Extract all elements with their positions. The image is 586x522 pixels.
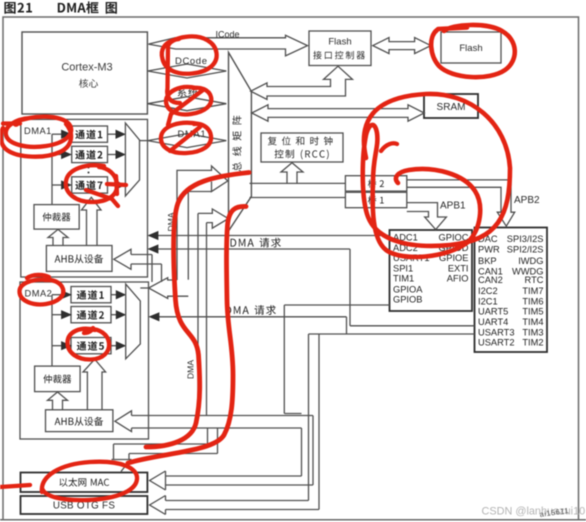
svg-text:DMA2: DMA2 [25,289,53,299]
svg-text:CSDN @lanhuazui10: CSDN @lanhuazui10 [482,506,586,518]
svg-text:Cortex-M3: Cortex-M3 [61,61,112,73]
svg-text:TIM1: TIM1 [393,274,414,284]
svg-text:ICode: ICode [216,30,240,40]
svg-text:PWR: PWR [478,245,500,255]
svg-text:DMA: DMA [186,360,196,379]
svg-text:TIM7: TIM7 [522,286,543,296]
svg-text:Flash: Flash [459,43,482,54]
svg-text:I2C1: I2C1 [478,296,498,306]
svg-text:RTC: RTC [525,275,544,285]
svg-text:TIM5: TIM5 [522,307,543,317]
svg-text:USART3: USART3 [478,327,515,337]
svg-text:CAN2: CAN2 [478,275,503,285]
svg-text:GPIOA: GPIOA [393,284,423,294]
svg-text:APB2: APB2 [514,195,540,206]
svg-text:BKP: BKP [478,256,497,266]
svg-text:USART2: USART2 [478,338,515,348]
svg-text:SPI1: SPI1 [393,263,413,273]
svg-text:AFIO: AFIO [447,274,469,284]
svg-text:TIM4: TIM4 [522,317,543,327]
svg-text:I2C2: I2C2 [478,286,498,296]
svg-text:SPI3/I2S: SPI3/I2S [507,234,544,244]
svg-text:DMA1: DMA1 [24,126,52,136]
svg-text:GPIOB: GPIOB [393,295,422,305]
svg-text:APB1: APB1 [440,201,466,212]
svg-text:Flash: Flash [328,37,351,48]
svg-text:TIM6: TIM6 [522,296,543,306]
svg-text:SRAM: SRAM [437,102,466,113]
svg-text:EXTI: EXTI [448,263,469,273]
svg-text:UART5: UART5 [478,307,508,317]
svg-text:SPI2/I2S: SPI2/I2S [507,245,544,255]
svg-text:UART4: UART4 [478,317,508,327]
svg-text:DCode: DCode [175,56,208,67]
svg-text:IWDG: IWDG [518,256,543,266]
svg-text:TIM2: TIM2 [522,338,543,348]
svg-text:TIM3: TIM3 [522,327,543,337]
